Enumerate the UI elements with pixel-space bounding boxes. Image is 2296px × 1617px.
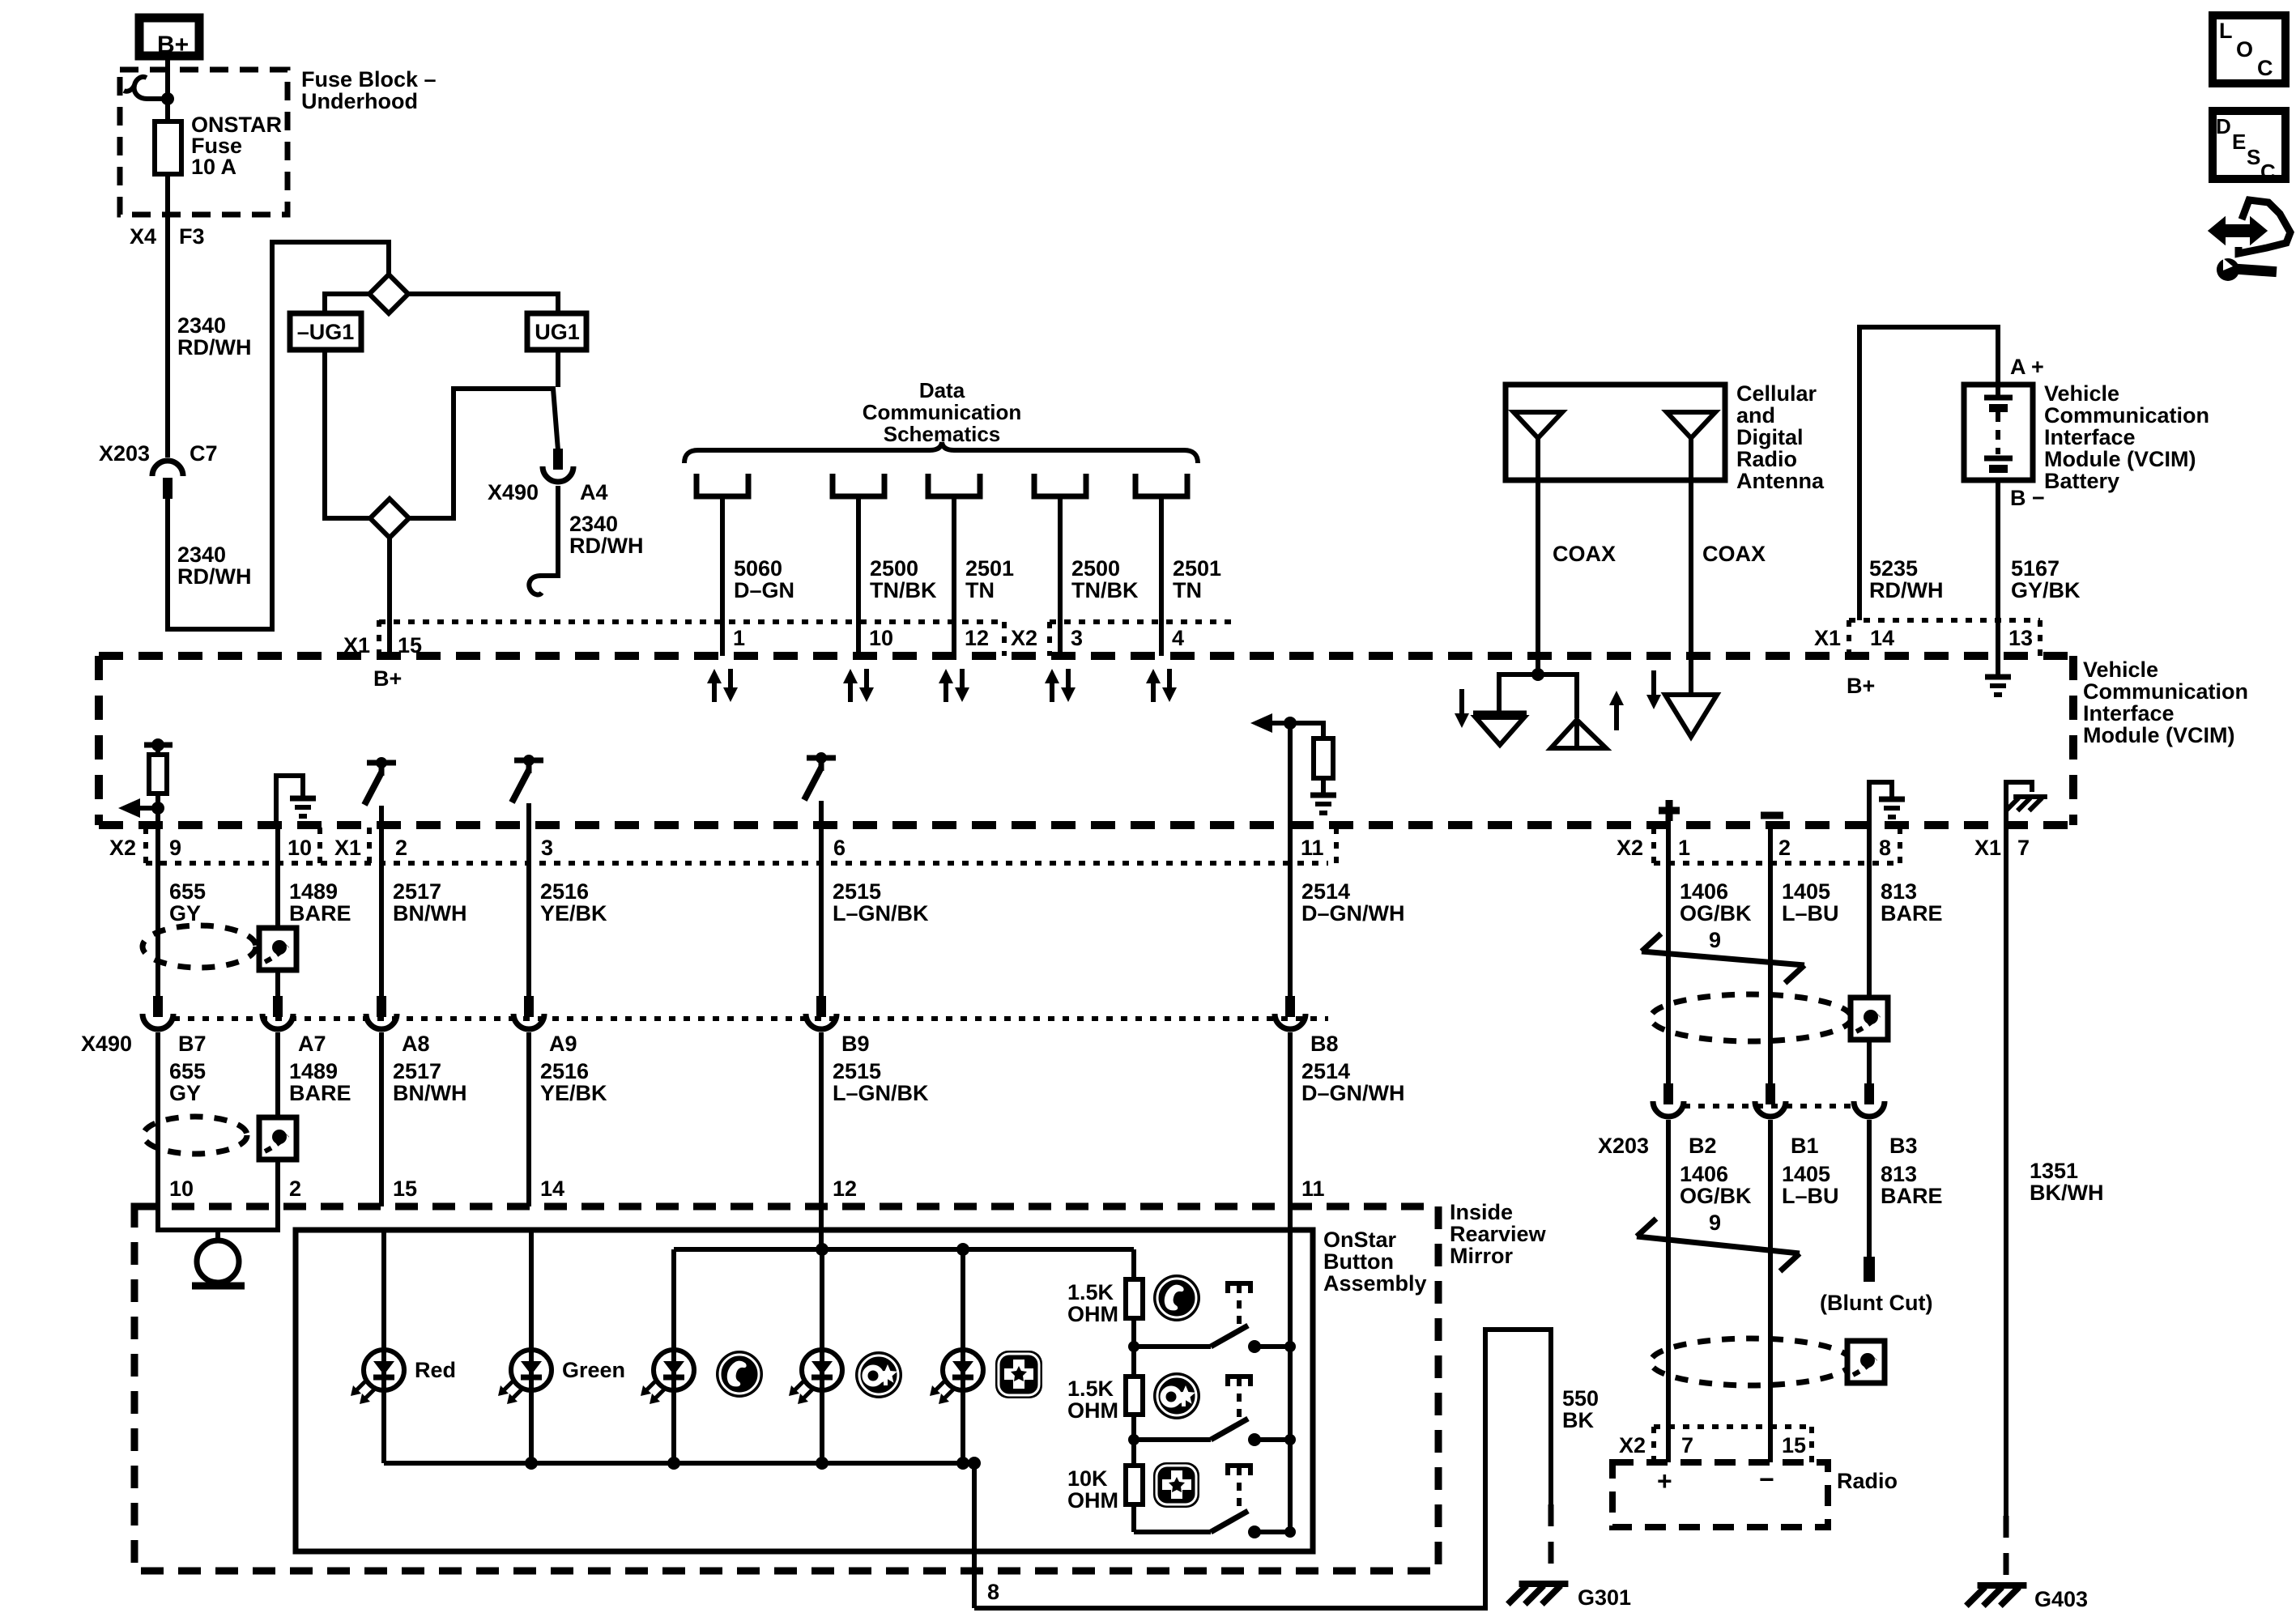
pin box tick at X1 15: [377, 620, 381, 656]
pin box dotted line over data pins: [379, 619, 999, 624]
antenna symbol left: [1514, 412, 1562, 438]
Cellular and Digital Radio Antenna box: [1506, 385, 1725, 480]
wire diamond to -UG1: [325, 294, 370, 313]
Fuse Block - Underhood dashed box: [120, 70, 288, 215]
wire cross LED: [961, 1249, 965, 1350]
pin box tick right of X2: [1047, 622, 1052, 656]
chassis ground branch above pin 7: [2006, 782, 2032, 825]
plus symbol above pin 1: [1659, 807, 1680, 815]
ground G301: [1508, 1584, 1569, 1604]
svg-text:9: 9: [1709, 1211, 1721, 1235]
signal arrow down far left: [1459, 689, 1464, 713]
svg-text:B1: B1: [1791, 1134, 1819, 1158]
svg-text:5167: 5167: [2011, 556, 2060, 581]
wire 1405 X203 to radio pin 15: [1768, 1120, 1773, 1462]
svg-text:TN: TN: [1173, 578, 1202, 602]
pin box tick right of X1: [367, 828, 372, 863]
svg-text:2340: 2340: [177, 313, 226, 338]
cross icon right: [1153, 1462, 1199, 1508]
internal antenna under right coax: [1665, 695, 1717, 737]
shield termination box lower right: [1847, 1341, 1885, 1383]
power feed B+ box: [139, 18, 199, 56]
svg-text:655: 655: [169, 879, 206, 904]
VCIM module dashed boundary left: [95, 656, 103, 825]
svg-text:BARE: BARE: [289, 901, 351, 926]
shield termination box upper right: [1851, 998, 1888, 1040]
connector X490 A8: [377, 996, 386, 1017]
resistor 10K OHM: [1131, 1440, 1136, 1466]
svg-text:9: 9: [169, 836, 181, 860]
junction dot bus at 1015: [816, 1243, 829, 1256]
wire 2501 TN to VCIM: [1159, 496, 1164, 656]
svg-text:A8: A8: [402, 1032, 430, 1056]
svg-text:8: 8: [987, 1580, 999, 1604]
pin box tick right of 10: [317, 828, 322, 863]
svg-text:2500: 2500: [1071, 556, 1120, 581]
svg-text:O: O: [2236, 37, 2253, 62]
svg-text:Interface: Interface: [2083, 701, 2175, 726]
wire 1489 BARE X490 to mirror: [275, 1032, 280, 1206]
svg-text:GY/BK: GY/BK: [2011, 578, 2081, 602]
pin box tick left of 14: [1847, 620, 1851, 656]
connector X490 A7: [273, 996, 283, 1017]
On button icon: [855, 1351, 902, 1398]
fuse F3 ONSTAR 10A body: [155, 121, 181, 174]
svg-text:BARE: BARE: [1881, 1184, 1943, 1208]
bidirectional arrows at pin 1: [712, 683, 717, 702]
svg-text:RD/WH: RD/WH: [569, 534, 643, 558]
phone LED: [654, 1350, 694, 1390]
wire 2501 TN to VCIM: [952, 496, 956, 656]
pin box tick left of pin 9: [143, 828, 148, 863]
wire 2500 TN/BK to VCIM: [856, 496, 861, 656]
LED bottom bus: [384, 1461, 974, 1466]
svg-text:11: 11: [1301, 1177, 1325, 1201]
wire 2514 D–GN/WH X490 to mirror: [1288, 1032, 1293, 1206]
svg-text:550: 550: [1562, 1386, 1599, 1411]
ground G403: [1966, 1585, 2027, 1606]
microphone loop wires: [158, 1206, 278, 1230]
svg-text:UG1: UG1: [535, 320, 580, 344]
wire A4 to curl end: [539, 486, 558, 576]
splice diamond upper: [369, 274, 408, 313]
svg-text:1406: 1406: [1680, 879, 1728, 904]
wire B9 pin 12 into box: [819, 1206, 824, 1249]
wire phone LED: [671, 1249, 676, 1350]
junction dot above pin 9: [151, 802, 164, 815]
svg-text:YE/BK: YE/BK: [540, 901, 607, 926]
svg-text:GY: GY: [169, 901, 201, 926]
svg-text:Radio: Radio: [1837, 1469, 1898, 1493]
wire green LED to bus: [529, 1390, 534, 1463]
off-page connector above wire 2501: [1135, 474, 1187, 496]
svg-text:X490: X490: [81, 1032, 132, 1056]
internal antenna branch left: [1499, 674, 1538, 712]
wire resistor1 to junction: [1131, 1318, 1136, 1347]
crossover 9 lower: [1637, 1236, 1800, 1253]
svg-text:−: −: [1759, 1465, 1774, 1494]
VCIM module dashed boundary top: [99, 652, 2073, 660]
svg-text:B+: B+: [373, 666, 402, 691]
svg-text:1: 1: [1678, 836, 1690, 860]
svg-text:OG/BK: OG/BK: [1680, 1184, 1752, 1208]
junction dot r1 r2: [1128, 1341, 1139, 1352]
junction dot bus to pin 8: [968, 1457, 981, 1470]
bidirectional arrows at pin 12: [944, 683, 948, 702]
antenna symbol right: [1667, 412, 1715, 438]
svg-text:B7: B7: [178, 1032, 207, 1056]
svg-text:X203: X203: [99, 441, 150, 466]
svg-text:2: 2: [395, 836, 407, 860]
svg-text:9: 9: [1709, 928, 1721, 952]
push button 3: [1228, 1466, 1250, 1475]
svg-text:D–GN/WH: D–GN/WH: [1301, 1081, 1405, 1105]
wire red LED to bus: [381, 1390, 386, 1463]
connector X203 B1: [1766, 1083, 1775, 1104]
pin box tick right of 13: [2038, 620, 2043, 656]
svg-text:RD/WH: RD/WH: [177, 335, 251, 360]
current source resistor branch at pin 9: [144, 743, 173, 748]
pin box dotted line bottom left group: [146, 861, 1328, 866]
svg-text:2514: 2514: [1301, 1059, 1350, 1083]
wire diamond to UG1: [407, 294, 558, 313]
connector X490 A9: [524, 996, 534, 1017]
wire 1351 BK/WH to G403: [2004, 825, 2008, 1516]
svg-text:BK: BK: [1562, 1408, 1594, 1432]
junction dot sw2 right bus: [1284, 1434, 1296, 1445]
bidirectional arrows at pin 3: [1050, 683, 1054, 702]
svg-text:COAX: COAX: [1702, 542, 1766, 566]
wire 2514 D–GN/WH VCIM to X490: [1288, 825, 1293, 998]
wire 2517 BN/WH X490 to mirror: [379, 1032, 384, 1206]
brace over data communication wires: [684, 442, 1198, 463]
svg-text:Mirror: Mirror: [1450, 1244, 1514, 1268]
svg-text:Rearview: Rearview: [1450, 1222, 1547, 1246]
wire 1405 L–BU VCIM to X203: [1768, 825, 1773, 1085]
switch 2 contact line: [1134, 1437, 1211, 1442]
svg-text:Vehicle: Vehicle: [2044, 381, 2119, 406]
resistor 1.5K OHM lower: [1131, 1347, 1136, 1377]
svg-text:1351: 1351: [2030, 1159, 2078, 1183]
phone button icon: [716, 1351, 763, 1398]
svg-text:X4: X4: [130, 224, 156, 249]
VCIM module dashed boundary bottom: [99, 821, 2073, 829]
wire 2516 YE/BK X490 to mirror: [526, 1032, 531, 1206]
svg-text:12: 12: [833, 1177, 857, 1201]
svg-text:2517: 2517: [393, 1059, 441, 1083]
wire 2517 BN/WH VCIM to X490: [379, 825, 384, 998]
VCIM battery box: [1964, 385, 2033, 480]
junction dot r2 r3: [1128, 1434, 1139, 1445]
svg-text:RD/WH: RD/WH: [1869, 578, 1943, 602]
svg-text:13: 13: [2008, 626, 2033, 650]
wire -UG1 down to splice diamond lower: [325, 350, 369, 518]
twisted pair ellipse upper right: [1651, 994, 1851, 1041]
option box UG1: [527, 313, 586, 350]
svg-text:X2: X2: [1619, 1433, 1646, 1457]
svg-text:L: L: [2219, 19, 2233, 43]
resistor to ground at pin 11: [1290, 723, 1323, 738]
svg-text:OG/BK: OG/BK: [1680, 901, 1752, 926]
svg-text:Module (VCIM): Module (VCIM): [2044, 447, 2196, 471]
svg-text:GY: GY: [169, 1081, 201, 1105]
svg-text:10K: 10K: [1067, 1466, 1108, 1491]
svg-text:C: C: [2260, 160, 2276, 184]
svg-text:G301: G301: [1578, 1585, 1631, 1610]
LED top bus: [674, 1247, 1134, 1252]
microphone symbol: [197, 1240, 239, 1283]
bidirectional arrows at pin 4: [1151, 683, 1156, 702]
junction dot sw1 right bus: [1284, 1341, 1296, 1352]
svg-text:Battery: Battery: [2044, 469, 2119, 493]
svg-text:10: 10: [288, 836, 312, 860]
wire 1489 BARE VCIM to X490: [275, 825, 280, 998]
svg-text:F3: F3: [179, 224, 205, 249]
bidirectional arrows at pin 10: [848, 683, 853, 702]
svg-text:X1: X1: [334, 836, 361, 860]
svg-text:B2: B2: [1689, 1134, 1717, 1158]
resistor 1.5K OHM upper: [1126, 1279, 1143, 1318]
wire pin 14 to VCIM battery: [1859, 327, 1998, 620]
svg-text:14: 14: [540, 1177, 564, 1201]
svg-text:2500: 2500: [870, 556, 918, 581]
cross LED: [943, 1350, 983, 1390]
svg-text:10: 10: [869, 626, 893, 650]
Inside Rearview Mirror dashed box: [134, 1206, 1438, 1571]
svg-text:6: 6: [833, 836, 846, 860]
svg-text:TN: TN: [965, 578, 995, 602]
On LED: [802, 1350, 842, 1390]
wire splice to X490 A4: [409, 389, 558, 518]
svg-text:B+: B+: [1847, 674, 1875, 698]
svg-text:A7: A7: [298, 1032, 326, 1056]
svg-text:Cellular: Cellular: [1736, 381, 1817, 406]
pin box tick left of X2: [1002, 622, 1007, 656]
svg-text:A +: A +: [2010, 355, 2044, 379]
wire 2515 L–GN/BK VCIM to X490: [819, 825, 824, 998]
svg-text:5060: 5060: [734, 556, 782, 581]
wire resistor2 to junction2: [1131, 1415, 1136, 1440]
twisted pair ellipse lower right: [1651, 1338, 1851, 1385]
svg-text:OHM: OHM: [1067, 1302, 1118, 1326]
connector X490 B8: [1285, 996, 1295, 1017]
svg-text:1405: 1405: [1782, 879, 1830, 904]
svg-text:X1: X1: [1974, 836, 2001, 860]
svg-text:Radio: Radio: [1736, 447, 1797, 471]
svg-text:OHM: OHM: [1067, 1398, 1118, 1423]
wire 813 BARE VCIM to X203: [1867, 825, 1872, 1085]
svg-text:15: 15: [393, 1177, 417, 1201]
wire fuse to X203 C7: [165, 174, 170, 457]
svg-text:8: 8: [1879, 836, 1891, 860]
crossover 9 upper: [1642, 951, 1804, 965]
connector X203 C7: [152, 461, 183, 476]
svg-text:Data: Data: [919, 378, 965, 402]
ground branch at pin 10: [276, 776, 303, 825]
svg-text:2516: 2516: [540, 1059, 589, 1083]
svg-text:655: 655: [169, 1059, 206, 1083]
push button 2: [1228, 1377, 1250, 1386]
svg-text:–UG1: –UG1: [297, 320, 355, 344]
wire pin 14 to green LED: [529, 1230, 534, 1350]
svg-text:2340: 2340: [569, 512, 618, 536]
svg-text:Digital: Digital: [1736, 425, 1804, 449]
connector X490 B9: [816, 996, 826, 1017]
svg-text:COAX: COAX: [1553, 542, 1616, 566]
svg-text:BN/WH: BN/WH: [393, 1081, 466, 1105]
svg-text:TN/BK: TN/BK: [1071, 578, 1139, 602]
svg-text:TN/BK: TN/BK: [870, 578, 937, 602]
connector X203 B2: [1663, 1083, 1673, 1104]
switch at pin 3: [514, 758, 543, 764]
svg-text:Underhood: Underhood: [301, 89, 418, 113]
svg-text:3: 3: [541, 836, 553, 860]
svg-text:B −: B −: [2010, 486, 2045, 510]
minus symbol above pin 2: [1761, 812, 1783, 819]
connector row X490 dotted line: [173, 1016, 1328, 1021]
svg-text:X203: X203: [1598, 1134, 1649, 1158]
svg-text:(Blunt Cut): (Blunt Cut): [1820, 1291, 1932, 1315]
COAX wire left: [1536, 480, 1540, 674]
svg-text:2515: 2515: [833, 1059, 881, 1083]
svg-text:Fuse Block –: Fuse Block –: [301, 67, 437, 91]
wire On LED: [820, 1249, 824, 1350]
wire pin 11 inside VCIM: [1288, 723, 1293, 825]
arrow out to pin 9 direction: [139, 806, 158, 811]
svg-text:RD/WH: RD/WH: [177, 564, 251, 589]
off-page connector above wire 2500: [1034, 474, 1086, 496]
svg-text:2: 2: [1778, 836, 1791, 860]
wire X203 C7 down and right to UG1 loop: [168, 242, 389, 629]
wire 1406 OG/BK VCIM to X203: [1666, 825, 1671, 1085]
svg-text:2501: 2501: [1173, 556, 1221, 581]
option box -UG1: [290, 313, 361, 350]
switch at pin 2: [367, 760, 396, 766]
wire 1406 X203 to radio pin 7: [1666, 1120, 1671, 1462]
wire 655 GY X490 to mirror: [155, 1032, 160, 1206]
switch 1 contact line: [1134, 1344, 1211, 1349]
arrow out to left at pin 11: [1272, 721, 1290, 726]
svg-text:D–GN: D–GN: [734, 578, 794, 602]
internal antenna branch right (tripod): [1538, 674, 1577, 718]
switch at pin 6: [807, 755, 836, 761]
DESC legend box: [2213, 111, 2285, 179]
svg-text:11: 11: [1301, 836, 1324, 860]
svg-text:BK/WH: BK/WH: [2030, 1181, 2103, 1205]
svg-text:7: 7: [1681, 1433, 1693, 1457]
Radio dashed box: [1612, 1462, 1828, 1527]
svg-text:BN/WH: BN/WH: [393, 901, 466, 926]
svg-text:X2: X2: [1011, 626, 1037, 650]
svg-text:E: E: [2232, 130, 2246, 154]
wire 2500 TN/BK to VCIM: [1058, 496, 1063, 656]
svg-text:813: 813: [1881, 1162, 1917, 1186]
wire 655 GY VCIM to X490: [155, 825, 160, 998]
svg-text:10: 10: [169, 1177, 194, 1201]
svg-text:Communication: Communication: [863, 400, 1021, 424]
svg-text:BARE: BARE: [1881, 901, 1943, 926]
svg-text:3: 3: [1071, 626, 1083, 650]
svg-text:813: 813: [1881, 879, 1917, 904]
svg-text:X2: X2: [109, 836, 136, 860]
wiring repair icon: [2210, 219, 2265, 242]
svg-text:B+: B+: [157, 32, 189, 58]
junction dot at fuse input: [161, 92, 174, 105]
svg-text:S: S: [2247, 145, 2260, 169]
junction dots on bottom bus: [525, 1457, 538, 1470]
battery symbol: [1996, 385, 2000, 396]
svg-text:+: +: [1657, 1466, 1672, 1496]
svg-text:2516: 2516: [540, 879, 589, 904]
svg-text:L–GN/BK: L–GN/BK: [833, 1081, 929, 1105]
svg-text:BARE: BARE: [289, 1081, 351, 1105]
svg-text:and: and: [1736, 403, 1775, 428]
blunt cut stub on 813: [1864, 1257, 1875, 1282]
wire 5060 D–GN to VCIM: [720, 496, 725, 656]
svg-text:2501: 2501: [965, 556, 1014, 581]
off-page connector above wire 2500: [833, 474, 884, 496]
off-page connector above wire 2501: [928, 474, 980, 496]
shield termination box lower left: [259, 1117, 296, 1160]
COAX wire right: [1689, 480, 1693, 695]
switch 3 contact line: [1134, 1530, 1211, 1534]
signal arrow up: [1614, 705, 1619, 730]
off-page connector above wire 5060: [696, 474, 748, 496]
svg-text:B8: B8: [1310, 1032, 1339, 1056]
connector X203 B3: [1864, 1083, 1874, 1104]
svg-text:10 A: 10 A: [191, 155, 236, 179]
wire 2515 L–GN/BK X490 to mirror: [819, 1032, 824, 1206]
svg-text:5235: 5235: [1869, 556, 1918, 581]
svg-text:1489: 1489: [289, 879, 338, 904]
svg-text:A9: A9: [549, 1032, 577, 1056]
svg-text:Communication: Communication: [2044, 403, 2209, 428]
resistor chain feed: [1131, 1249, 1136, 1279]
wire pin 15 to red LED: [381, 1230, 386, 1350]
svg-text:2515: 2515: [833, 879, 881, 904]
fuse element curl: [124, 77, 164, 99]
twisted pair ellipse upper left: [143, 926, 256, 968]
svg-text:L–GN/BK: L–GN/BK: [833, 901, 929, 926]
svg-text:G403: G403: [2034, 1587, 2088, 1611]
terminal curl at A4 wire end: [529, 576, 542, 594]
ground inside VCIM under pin 13: [1996, 656, 2000, 677]
svg-text:1405: 1405: [1782, 1162, 1830, 1186]
svg-text:1406: 1406: [1680, 1162, 1728, 1186]
shield termination box upper left: [259, 928, 296, 970]
LOC legend box: [2213, 15, 2285, 83]
wire B8 pin 11 into box right bus: [1288, 1206, 1293, 1532]
svg-text:A4: A4: [580, 480, 608, 504]
red LED: [364, 1350, 404, 1390]
junction dot at pin 11 branch: [1284, 717, 1297, 730]
connector X490 B7: [153, 996, 163, 1017]
svg-text:15: 15: [1782, 1433, 1806, 1457]
OnStar Button Assembly box: [296, 1230, 1313, 1551]
pin box dotted tick after pin 11: [1334, 828, 1339, 863]
ground branch above pin 8: [1869, 782, 1892, 825]
wire battery B to pin 13: [1996, 480, 2000, 656]
svg-text:D: D: [2216, 114, 2231, 138]
svg-text:Communication: Communication: [2083, 679, 2248, 704]
pin box dotted line pins 14 13: [1849, 618, 2040, 623]
svg-text:1489: 1489: [289, 1059, 338, 1083]
svg-text:OHM: OHM: [1067, 1488, 1118, 1513]
svg-text:C: C: [2257, 56, 2273, 80]
svg-text:X1: X1: [1814, 626, 1841, 650]
svg-text:L–BU: L–BU: [1782, 901, 1839, 926]
svg-text:Red: Red: [415, 1358, 456, 1382]
